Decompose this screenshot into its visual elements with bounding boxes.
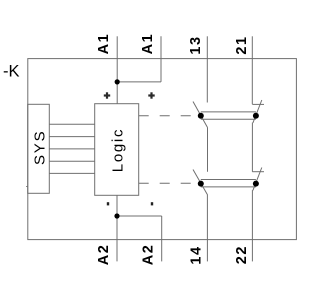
svg-text:14: 14 bbox=[188, 245, 204, 264]
svg-text:A1: A1 bbox=[140, 33, 156, 55]
svg-text:-K: -K bbox=[3, 63, 20, 81]
svg-text:A2: A2 bbox=[96, 244, 112, 266]
svg-text:13: 13 bbox=[188, 35, 204, 54]
svg-text:SYS: SYS bbox=[31, 130, 48, 165]
svg-text:22: 22 bbox=[234, 245, 250, 264]
svg-text:21: 21 bbox=[234, 35, 250, 54]
svg-text:Logic: Logic bbox=[109, 128, 126, 172]
svg-text:A1: A1 bbox=[96, 33, 112, 55]
svg-text:A2: A2 bbox=[140, 244, 156, 266]
